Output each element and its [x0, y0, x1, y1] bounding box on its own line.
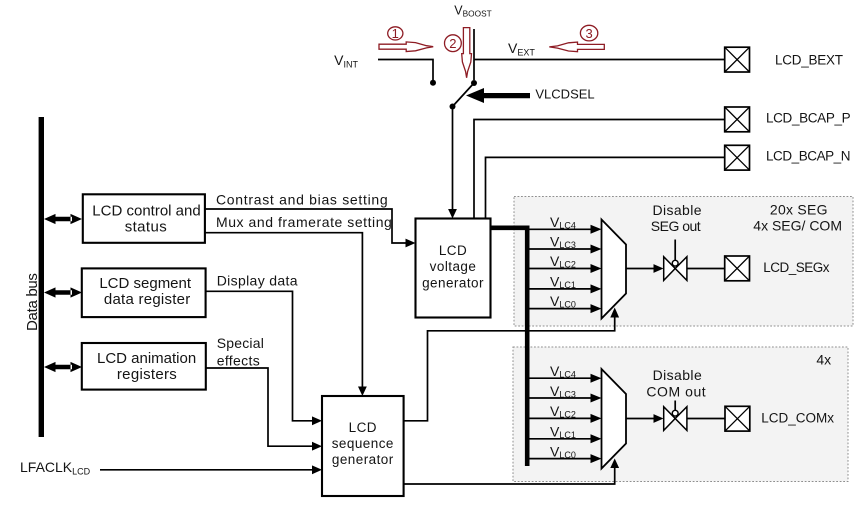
- svg-text:registers: registers: [117, 366, 177, 383]
- svg-text:LCD_BCAP_N: LCD_BCAP_N: [766, 149, 850, 164]
- svg-text:Disable: Disable: [652, 202, 702, 218]
- svg-text:4x: 4x: [816, 351, 831, 367]
- svg-text:sequence: sequence: [332, 436, 394, 451]
- svg-text:20x SEG: 20x SEG: [770, 202, 828, 218]
- svg-text:generator: generator: [332, 452, 394, 467]
- svg-text:LCD control and: LCD control and: [92, 203, 200, 220]
- svg-text:Contrast and bias setting: Contrast and bias setting: [216, 191, 388, 207]
- svg-text:Data bus: Data bus: [24, 273, 41, 331]
- svg-text:LCD_BEXT: LCD_BEXT: [775, 53, 843, 68]
- svg-text:3: 3: [585, 26, 592, 41]
- svg-text:LCD segment: LCD segment: [99, 275, 192, 292]
- svg-text:LCD animation: LCD animation: [97, 350, 196, 367]
- svg-text:VEXT: VEXT: [508, 40, 535, 58]
- svg-text:SEG out: SEG out: [651, 218, 701, 234]
- svg-text:Display data: Display data: [217, 273, 298, 289]
- svg-text:VLCDSEL: VLCDSEL: [535, 87, 594, 102]
- svg-text:voltage: voltage: [430, 259, 477, 274]
- svg-text:LFACLKLCD: LFACLKLCD: [20, 459, 91, 477]
- svg-text:Disable: Disable: [653, 367, 703, 383]
- svg-text:effects: effects: [217, 353, 260, 369]
- svg-text:1: 1: [392, 26, 399, 41]
- svg-text:VINT: VINT: [334, 52, 358, 69]
- svg-text:VBOOST: VBOOST: [454, 4, 491, 19]
- svg-text:2: 2: [449, 36, 456, 51]
- svg-text:LCD_COMx: LCD_COMx: [761, 410, 834, 425]
- svg-text:data register: data register: [104, 291, 191, 308]
- svg-text:LCD_BCAP_P: LCD_BCAP_P: [766, 111, 851, 126]
- svg-text:Special: Special: [217, 335, 264, 351]
- svg-text:COM out: COM out: [646, 383, 706, 399]
- svg-text:4x SEG/ COM: 4x SEG/ COM: [753, 217, 842, 233]
- svg-text:generator: generator: [422, 276, 484, 291]
- svg-text:LCD_SEGx: LCD_SEGx: [763, 260, 830, 275]
- svg-text:LCD: LCD: [439, 243, 467, 258]
- svg-text:status: status: [125, 219, 167, 236]
- svg-text:Mux and framerate setting: Mux and framerate setting: [216, 214, 392, 230]
- svg-text:LCD: LCD: [349, 420, 377, 435]
